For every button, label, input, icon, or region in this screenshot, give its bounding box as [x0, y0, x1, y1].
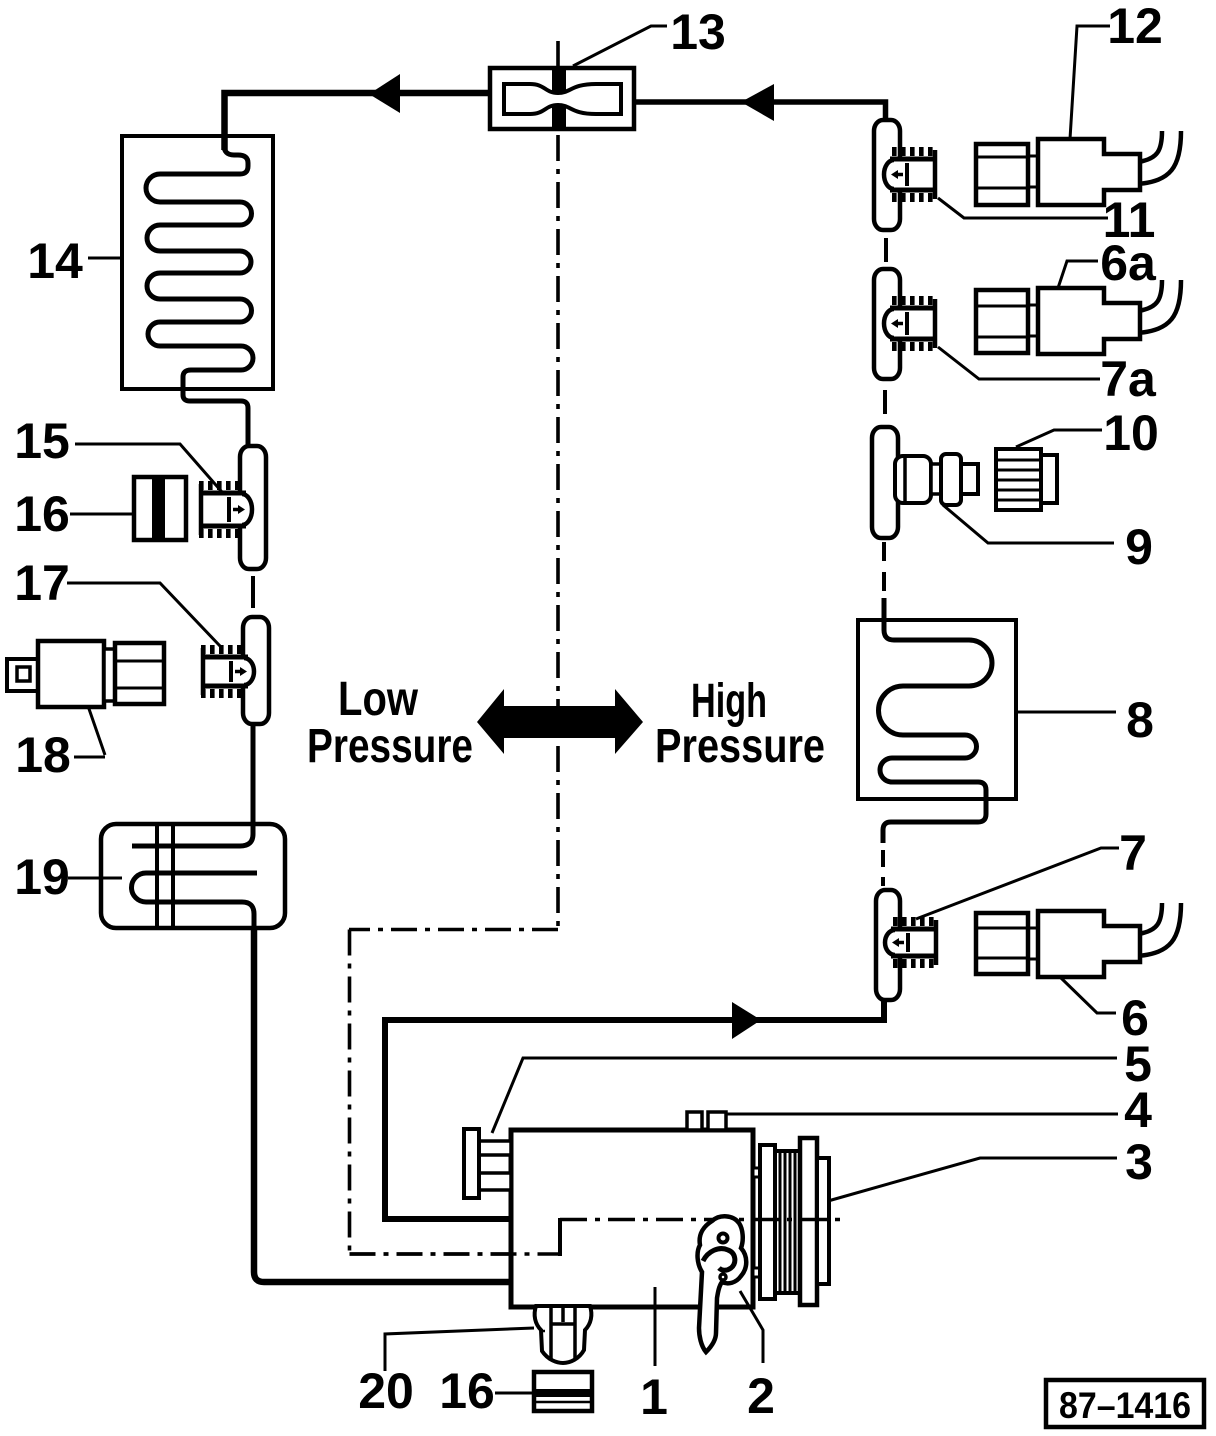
wire: suction line from restrictor to evaporator (top left)	[225, 93, 493, 150]
wire: pipe evaporator to valve 15 tube	[246, 440, 251, 450]
label High Pressure	[655, 675, 825, 773]
wire: boundary dash-dot horizontal into compressor	[350, 1252, 560, 1256]
pipe tube at service valve 7a	[874, 269, 900, 379]
svg-text:Low: Low	[338, 673, 419, 726]
service valve fitting 7a	[884, 299, 938, 348]
svg-text:19: 19	[14, 849, 70, 905]
label 10	[1103, 405, 1159, 461]
wire: discharge line from compressor to valve 7	[385, 999, 884, 1219]
accumulator/drier 19	[101, 824, 285, 928]
flow arrow left (top left pipe)	[369, 74, 400, 113]
leader line 14	[88, 257, 122, 260]
pipe tube at service valve 7	[876, 890, 900, 1000]
cap 16 (for valve 15)	[134, 477, 186, 540]
leader line 11	[938, 198, 1108, 218]
leader line 15	[75, 444, 222, 492]
charging valve 6 with hose	[1028, 903, 1181, 977]
label 18	[15, 727, 71, 783]
svg-text:6a: 6a	[1100, 235, 1157, 291]
label 6a	[1100, 235, 1157, 291]
label 20	[358, 1363, 414, 1419]
pipe tube at fitting 9	[872, 427, 898, 538]
service valve fitting 15	[199, 484, 253, 535]
svg-text:2: 2	[747, 1368, 775, 1424]
leader line 1	[654, 1287, 657, 1366]
svg-text:18: 18	[15, 727, 71, 783]
svg-text:16: 16	[439, 1363, 495, 1419]
leader line 20	[385, 1328, 534, 1371]
charging valve 12 with hose	[1028, 131, 1181, 205]
svg-text:13: 13	[670, 4, 726, 60]
leader line 13	[573, 26, 667, 66]
wire: compressor axis dash-dot	[350, 1218, 846, 1256]
leader line 3	[828, 1158, 1117, 1201]
leader line 17	[67, 583, 220, 646]
leader line 16 bottom	[495, 1392, 533, 1395]
svg-text:9: 9	[1125, 519, 1153, 575]
leader line 9	[943, 505, 1114, 543]
wire: boundary dash-dot vertical x349	[348, 930, 352, 1255]
service valve fitting 11	[884, 150, 938, 199]
label 4	[1124, 1082, 1152, 1138]
wire: boundary dash-dot horizontal y930	[349, 928, 558, 932]
leader line 10	[1016, 430, 1102, 447]
wire: line from service valve 11 to restrictor (top right)	[634, 102, 886, 118]
condenser 8 (coil in box)	[858, 598, 1016, 843]
service valve fitting 17	[201, 648, 255, 695]
leader line 6a	[1058, 261, 1098, 288]
leader line 4	[726, 1113, 1118, 1116]
ribbed cap 10	[996, 449, 1057, 510]
wire: suction line accumulator to compressor	[254, 926, 511, 1282]
leader line 5	[492, 1058, 1117, 1133]
cap for valve 6a	[976, 290, 1028, 353]
leader line 2	[740, 1291, 763, 1363]
svg-text:3: 3	[1125, 1134, 1153, 1190]
charging valve 6a with hose	[1028, 280, 1181, 354]
leader line 6	[1060, 977, 1116, 1013]
label 2	[747, 1368, 775, 1424]
pressure switch 18	[7, 641, 164, 707]
label Low Pressure	[307, 673, 473, 773]
svg-text:7a: 7a	[1100, 351, 1157, 407]
wire: dashed stub between valve 11 and 7a tubes	[884, 238, 888, 262]
wire: dashed stub between tubes 15 and 17	[251, 576, 255, 608]
label 8	[1126, 692, 1154, 748]
label 7	[1119, 825, 1147, 881]
svg-text:12: 12	[1107, 0, 1163, 54]
svg-text:Pressure: Pressure	[655, 720, 825, 773]
discharge ports 4 on compressor top	[687, 1112, 726, 1130]
leader line 8	[1018, 711, 1116, 714]
svg-text:87–1416: 87–1416	[1059, 1385, 1191, 1426]
leader line 12	[1070, 26, 1110, 139]
label 14	[27, 233, 83, 289]
flow arrow right (discharge line)	[732, 1002, 761, 1039]
svg-text:Pressure: Pressure	[307, 720, 473, 773]
oil drain plug 20	[535, 1306, 592, 1363]
label 7a	[1100, 351, 1157, 407]
label 11	[1103, 192, 1156, 248]
leader line 16	[70, 513, 133, 516]
wire: low/high pressure boundary dash-dot vertical through restrictor	[556, 41, 560, 929]
svg-text:16: 16	[14, 486, 70, 542]
label 3	[1125, 1134, 1153, 1190]
wire: dashed line condenser to valve 7 tube	[881, 850, 885, 886]
label 9	[1125, 519, 1153, 575]
svg-text:10: 10	[1103, 405, 1159, 461]
flow arrow left (top right pipe)	[741, 84, 774, 121]
svg-text:7: 7	[1119, 825, 1147, 881]
label 15	[14, 413, 70, 469]
cap for valve 12	[976, 144, 1028, 205]
leader line 7	[916, 848, 1119, 919]
clutch holding key 2	[698, 1216, 747, 1352]
cap for valve 6	[976, 913, 1028, 974]
svg-text:17: 17	[14, 555, 70, 611]
label 19	[14, 849, 70, 905]
label 16	[14, 486, 70, 542]
label 16 bottom	[439, 1363, 495, 1419]
double-headed arrow low/high	[477, 689, 643, 754]
label 13	[670, 4, 726, 60]
pipe tube at service valve 11	[874, 120, 900, 230]
svg-text:8: 8	[1126, 692, 1154, 748]
svg-text:15: 15	[14, 413, 70, 469]
svg-text:14: 14	[27, 233, 83, 289]
drawing number box 87-1416	[1046, 1380, 1204, 1427]
pipe tube at service valve 17	[243, 617, 269, 724]
label 12	[1107, 0, 1163, 54]
svg-text:1: 1	[640, 1369, 668, 1425]
label 6	[1121, 990, 1149, 1046]
svg-text:20: 20	[358, 1363, 414, 1419]
quick-coupling fitting 9	[895, 454, 978, 505]
compressor body 1	[511, 1130, 753, 1307]
leader line 7a	[938, 347, 1100, 379]
clutch pulley 3	[753, 1138, 829, 1305]
leader line 18	[74, 706, 105, 757]
wire: dashed line tube9 to condenser	[882, 542, 886, 618]
restrictor / orifice 13	[490, 68, 634, 129]
wire: pipe tube17 to accumulator	[251, 724, 256, 828]
service valve fitting 7	[885, 920, 939, 965]
leader line 19	[68, 877, 122, 880]
wire: dashed stub between 7a tube and 9 tube	[883, 390, 887, 414]
cap 16 (for drain plug)	[534, 1372, 592, 1411]
svg-text:4: 4	[1124, 1082, 1152, 1138]
label 5	[1124, 1036, 1152, 1092]
label 1	[640, 1369, 668, 1425]
pipe tube at service valve 15	[240, 446, 266, 569]
suction port fitting 5 on compressor	[464, 1129, 511, 1198]
label 17	[14, 555, 70, 611]
evaporator 14 (coil in box)	[122, 136, 273, 446]
